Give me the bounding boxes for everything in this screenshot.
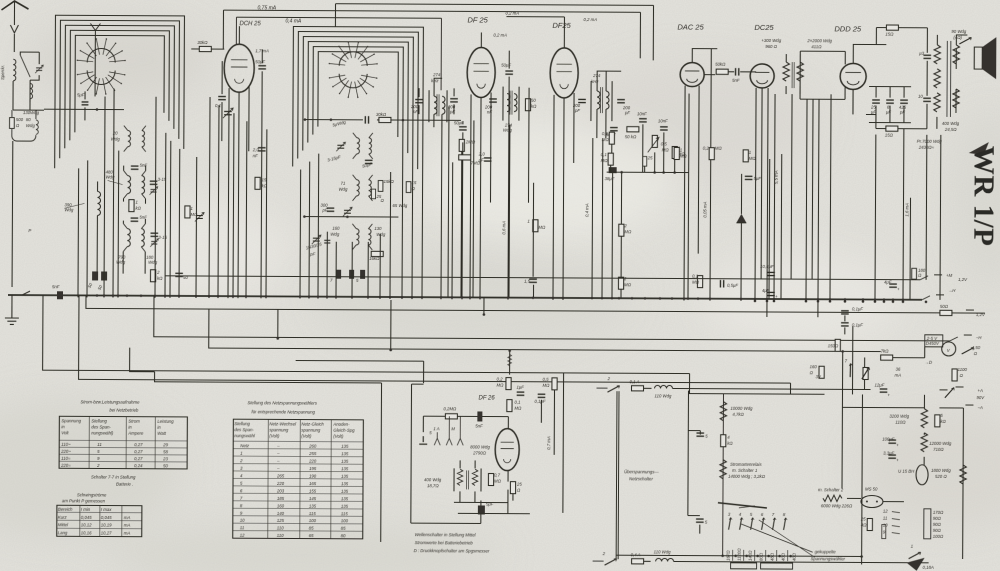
svg-text:25: 25 (516, 482, 522, 487)
wire y109 (44, 108, 124, 110)
svg-text:130Wdg: 130Wdg (23, 110, 40, 115)
svg-text:135: 135 (341, 496, 349, 501)
svg-text:4μF: 4μF (884, 280, 892, 285)
svg-text:167Ω: 167Ω (726, 550, 731, 561)
cap 200 right (450, 99, 458, 102)
IF transformer T2 274kHz (591, 81, 612, 121)
frame antenna input (90, 23, 100, 40)
15 Ohm resistor top (886, 25, 898, 30)
svg-text:15Ω: 15Ω (885, 32, 894, 37)
svg-text:Ampere: Ampere (127, 431, 144, 436)
trimmer (343, 207, 352, 216)
svg-text:40Ω: 40Ω (781, 552, 786, 561)
svg-text:U 15 BH: U 15 BH (898, 469, 915, 474)
svg-text:65: 65 (309, 533, 314, 538)
svg-text:10,27: 10,27 (101, 530, 112, 535)
svg-text:Spannung: Spannung (61, 418, 81, 423)
bottom switch right (909, 552, 921, 559)
svg-text:3200 Wdg: 3200 Wdg (889, 414, 909, 419)
svg-text:50 kΩ: 50 kΩ (625, 134, 637, 139)
svg-text:110=: 110= (61, 456, 71, 461)
svg-text:m. Schalter 1: m. Schalter 1 (732, 468, 758, 473)
svg-text:nF: nF (487, 110, 492, 115)
svg-text:Wdg: Wdg (111, 137, 120, 142)
left IF coil pair 1 (128, 176, 131, 194)
black arrow top right (969, 142, 989, 155)
switch row 2 (593, 560, 604, 562)
svg-text:220=: 220= (60, 463, 71, 468)
svg-text:1120Ω: 1120Ω (737, 548, 742, 561)
svg-text:1,5: 1,5 (524, 279, 531, 284)
svg-text:0,27: 0,27 (134, 442, 143, 447)
osc box line (304, 216, 398, 218)
svg-text:nungswähl: nungswähl (234, 433, 256, 438)
svg-text:80: 80 (341, 533, 346, 538)
svg-text:3-15: 3-15 (158, 235, 167, 240)
svg-text:DCH 25: DCH 25 (239, 21, 261, 27)
svg-text:MΩ: MΩ (538, 225, 546, 230)
svg-text:220: 220 (276, 481, 285, 486)
antenna (1, 1, 28, 10)
resistor 0,1M (608, 153, 613, 165)
svg-text:0,18A: 0,18A (923, 565, 934, 570)
svg-text:2×2000 Wdg: 2×2000 Wdg (806, 38, 832, 43)
rotary switch S2 (329, 64, 345, 65)
svg-text:+300 Wdg: +300 Wdg (761, 38, 781, 43)
DDD25 drive frame (800, 51, 845, 99)
svg-text:80: 80 (26, 117, 31, 122)
cap 5nF (736, 68, 739, 76)
svg-text:115: 115 (309, 511, 316, 516)
svg-text:0,1: 0,1 (215, 103, 222, 108)
svg-text:145: 145 (309, 496, 317, 501)
svg-text:130: 130 (374, 226, 382, 231)
svg-text:12: 12 (240, 533, 245, 538)
svg-text:185: 185 (277, 496, 285, 501)
svg-text:71: 71 (341, 181, 346, 186)
svg-text:1 A: 1 A (433, 426, 439, 431)
svg-text:Bereich: Bereich (58, 507, 73, 512)
resistor 0,5M vertical (552, 378, 557, 390)
svg-text:6000 Wdg 226Ω: 6000 Wdg 226Ω (821, 503, 853, 508)
svg-text:0,4 mA: 0,4 mA (285, 18, 302, 24)
cap 300pF (327, 208, 335, 211)
svg-text:0,27: 0,27 (134, 456, 143, 461)
cap 1s (365, 116, 368, 124)
svg-text:135: 135 (341, 459, 349, 464)
rotary switch S1 (77, 60, 93, 61)
svg-text:→H: →H (948, 288, 956, 293)
svg-text:gekuppelte: gekuppelte (815, 549, 837, 554)
trimmer 3-15 (150, 181, 158, 184)
right resistor chain (924, 509, 931, 539)
svg-text:36: 36 (896, 367, 901, 372)
svg-text:DF 25: DF 25 (467, 15, 488, 24)
resistor 2MOhm (533, 220, 538, 232)
svg-text:50μF: 50μF (501, 63, 511, 68)
svg-text:10,16: 10,16 (81, 530, 92, 535)
svg-text:10: 10 (883, 523, 888, 528)
svg-text:Strom-bzw.Leistungsaufnahme: Strom-bzw.Leistungsaufnahme (80, 399, 140, 404)
cap 0,1uF (538, 394, 546, 397)
svg-text:100μF: 100μF (882, 437, 895, 442)
svg-text:(Volt): (Volt) (301, 434, 312, 439)
tube DCH25 (224, 44, 254, 92)
relay column (722, 394, 725, 556)
svg-text:50: 50 (163, 463, 168, 468)
svg-text:25: 25 (860, 516, 866, 521)
svg-text:pF: pF (321, 208, 327, 213)
svg-text:5μF: 5μF (754, 176, 762, 181)
svg-text:7kΩ: 7kΩ (881, 349, 890, 354)
resistor 50kOhm (627, 127, 639, 132)
battery contacts 1A M (419, 436, 427, 444)
trimmer (195, 212, 204, 221)
svg-text:18,7Ω: 18,7Ω (427, 483, 439, 488)
4,50 Ohm trim (962, 347, 974, 354)
resistor 2M lower (618, 277, 623, 289)
svg-text:kΩ: kΩ (531, 104, 537, 109)
resistor 15k (378, 181, 383, 192)
svg-text:Sperrkr.: Sperrkr. (0, 65, 5, 80)
verticals below DC25/DDD25 (755, 88, 756, 301)
coil 80Wdg (36, 120, 38, 134)
mech link (616, 391, 619, 559)
svg-text:WR 1/P: WR 1/P (967, 146, 1000, 247)
resistor 15k (255, 177, 260, 189)
svg-text:Wdg: Wdg (339, 187, 348, 192)
svg-text:Schwingströme: Schwingströme (77, 492, 107, 497)
long bus y275 (165, 276, 920, 280)
right end labels (922, 295, 944, 300)
svg-text:50Ω: 50Ω (940, 304, 949, 309)
svg-text:Batterie .: Batterie . (116, 482, 133, 487)
svg-text:0,24: 0,24 (134, 463, 143, 468)
cap 50 (175, 273, 183, 276)
svg-text:135: 135 (341, 481, 349, 486)
svg-text:1,2V: 1,2V (976, 312, 986, 317)
svg-text:Wdg: Wdg (376, 232, 385, 237)
svg-text:kΩ: kΩ (727, 441, 733, 446)
svg-text:140: 140 (277, 511, 285, 516)
svg-text:am Punkt P gemessen: am Punkt P gemessen (62, 498, 106, 503)
svg-text:M: M (451, 426, 455, 431)
svg-text:160: 160 (332, 226, 340, 231)
svg-text:110: 110 (277, 533, 284, 538)
resistor 2k (150, 270, 155, 282)
svg-text:+A: +A (977, 388, 983, 393)
svg-text:10: 10 (240, 518, 245, 523)
svg-text:110 Wdg: 110 Wdg (654, 393, 672, 398)
svg-text:135: 135 (341, 451, 349, 456)
svg-text:0,2 mA: 0,2 mA (505, 11, 519, 16)
resistor 2M upper (619, 224, 624, 236)
svg-text:100: 100 (341, 518, 349, 523)
resistor 1M mid (674, 147, 679, 159)
cap 10uF (923, 55, 931, 58)
caps 10,5uF 4uF stack (767, 272, 775, 275)
cap 38nF (609, 167, 617, 173)
svg-text:I min: I min (81, 507, 91, 512)
switch (959, 37, 971, 44)
AF transformer (783, 62, 789, 81)
svg-text:kΩ: kΩ (135, 206, 141, 211)
cap 200nF (489, 99, 497, 102)
svg-text:170Ω: 170Ω (933, 510, 944, 515)
diode (736, 214, 746, 223)
antenna switch (20, 55, 30, 77)
svg-text:0,1 A: 0,1 A (630, 379, 640, 384)
svg-text:Wdg: Wdg (26, 123, 35, 128)
svg-text:411Ω: 411Ω (811, 44, 822, 49)
svg-text:135: 135 (309, 503, 317, 508)
svg-text:100: 100 (309, 518, 317, 523)
svg-text:0,1μF: 0,1μF (852, 322, 863, 327)
resistor 1kOhm (129, 200, 134, 212)
svg-text:38μF: 38μF (605, 176, 615, 181)
bandswitch wiring loops center (293, 26, 424, 177)
svg-text:23: 23 (162, 456, 168, 461)
svg-text:(Volt): (Volt) (333, 434, 344, 439)
table 1 (59, 416, 187, 469)
antenna coil 2 (30, 83, 33, 98)
svg-text:2,0: 2,0 (252, 147, 260, 152)
svg-text:0,27: 0,27 (134, 449, 143, 454)
svg-text:2,0: 2,0 (478, 151, 486, 156)
svg-text:135: 135 (341, 444, 349, 449)
svg-text:DAC 25: DAC 25 (677, 23, 704, 32)
svg-text:nF: nF (253, 153, 258, 158)
svg-text:Lang: Lang (58, 530, 68, 535)
svg-text:(Volt): (Volt) (269, 433, 280, 438)
svg-text:mA: mA (124, 523, 131, 528)
4uF cap right (889, 284, 897, 287)
svg-text:Stromwerte bei Batteriebetrieb: Stromwerte bei Batteriebetrieb (415, 540, 474, 545)
svg-text:0,045: 0,045 (101, 515, 112, 520)
3,3uF cap (888, 455, 896, 458)
svg-text:11: 11 (97, 442, 102, 447)
svg-text:4,7kΩ: 4,7kΩ (732, 412, 744, 417)
svg-text:μF: μF (870, 110, 876, 115)
svg-text:Stromartenrelais: Stromartenrelais (730, 462, 762, 467)
svg-text:260: 260 (308, 444, 317, 449)
svg-text:58: 58 (163, 449, 168, 454)
svg-text:265: 265 (276, 473, 285, 478)
svg-text:0,7 mA: 0,7 mA (546, 436, 551, 450)
svg-text:DF25: DF25 (552, 21, 571, 30)
+A 90V -A labels (940, 387, 964, 390)
output transformer (934, 45, 940, 64)
resistor 0,5M (609, 132, 614, 144)
12uF cap (880, 389, 888, 392)
cap 10nF no.2 (660, 127, 668, 130)
resistor 50k (525, 99, 530, 111)
svg-text:1800 Wdg: 1800 Wdg (931, 468, 951, 473)
svg-text:0,1μF: 0,1μF (852, 306, 863, 311)
svg-text:MΩ: MΩ (749, 156, 757, 161)
tube DDD25 (840, 63, 866, 89)
svg-text:5nF: 5nF (140, 163, 148, 168)
svg-text:Netz-Gleich: Netz-Gleich (301, 422, 324, 427)
svg-text:10nF: 10nF (658, 118, 668, 123)
svg-text:1,6 mA: 1,6 mA (904, 203, 909, 217)
svg-text:10: 10 (918, 94, 923, 99)
svg-text:MΩ: MΩ (624, 229, 632, 234)
svg-text:85: 85 (341, 526, 346, 531)
svg-text:710Ω: 710Ω (933, 447, 944, 452)
svg-text:kΩ: kΩ (940, 419, 946, 424)
svg-text:20: 20 (112, 131, 118, 136)
svg-text:1100: 1100 (958, 367, 968, 372)
svg-text:pF: pF (624, 110, 630, 115)
svg-text:135: 135 (341, 474, 349, 479)
svg-text:bei Netzbetrieb: bei Netzbetrieb (109, 408, 139, 413)
svg-text:0,5: 0,5 (602, 131, 609, 136)
cap column x689 (687, 391, 690, 516)
svg-text:pF: pF (309, 252, 315, 257)
cap 50pF (610, 128, 618, 131)
svg-text:5nF: 5nF (52, 284, 60, 289)
svg-text:40Ω: 40Ω (792, 552, 797, 561)
svg-text:135: 135 (341, 504, 349, 509)
svg-text:11: 11 (240, 525, 245, 530)
svg-text:10nF: 10nF (637, 111, 647, 116)
junction line (607, 171, 689, 173)
ground (5, 306, 19, 324)
svg-text:Watt: Watt (157, 431, 167, 436)
svg-text:5nF: 5nF (139, 215, 147, 220)
svg-text:mA: mA (895, 373, 902, 378)
resistor 0,1M vertical (507, 400, 512, 412)
cap 5nF top (131, 166, 139, 169)
svg-text:Wellenschalter in Stellung Mit: Wellenschalter in Stellung Mittel (415, 532, 477, 537)
wires verticals (77, 168, 80, 297)
svg-text:(4Ω): (4Ω) (953, 35, 962, 40)
svg-text:90V: 90V (976, 395, 985, 400)
resistor bank (731, 563, 793, 569)
svg-text:12000 Wdg: 12000 Wdg (929, 441, 952, 446)
antenna coil 2,8 (13, 59, 16, 81)
svg-text:220~: 220~ (60, 449, 71, 454)
svg-text:Stellung des Netzspannungswähl: Stellung des Netzspannungswählers (247, 400, 317, 405)
180 Ohm resistor (912, 268, 917, 279)
svg-text:10000 Wdg: 10000 Wdg (730, 406, 753, 411)
svg-text:15kΩ: 15kΩ (384, 179, 395, 184)
trimmer 1N30/25 (312, 235, 321, 244)
svg-text:+M: +M (946, 273, 953, 278)
svg-text:5μF: 5μF (77, 92, 85, 97)
svg-text:MS 50: MS 50 (865, 486, 878, 491)
svg-text:0,5μF: 0,5μF (727, 283, 738, 288)
electrolytic caps bank (872, 100, 880, 103)
svg-text:Wdg: Wdg (116, 260, 125, 265)
svg-text:des Span-: des Span- (91, 424, 111, 429)
osc coil pair B (357, 180, 360, 196)
resistor 25 Ohm (510, 482, 515, 494)
svg-text:MΩ: MΩ (680, 154, 688, 159)
svg-text:3,3μF: 3,3μF (883, 451, 894, 456)
trimmer 3-15pF (336, 142, 345, 151)
bus dots right (754, 300, 757, 303)
svg-text:Stellung: Stellung (234, 421, 250, 426)
svg-text:10,19: 10,19 (101, 523, 112, 528)
osc junction line (305, 119, 461, 122)
left IF coil pair 2 (127, 229, 130, 247)
resistor 50kOhm (716, 69, 728, 74)
svg-text:MΩ: MΩ (715, 146, 723, 151)
svg-text:160: 160 (810, 364, 818, 369)
voltmeter (925, 335, 943, 347)
svg-text:Netz-Wechsel: Netz-Wechsel (269, 421, 297, 426)
resistor 30kOhm (379, 117, 391, 122)
svg-text:Überspannungs—: Überspannungs— (624, 469, 659, 474)
svg-text:90Ω: 90Ω (933, 516, 942, 521)
svg-text:90 Wdg: 90 Wdg (951, 29, 966, 34)
cap 50uF (365, 160, 373, 163)
tube DF26 (495, 429, 519, 471)
svg-text:10,5μF: 10,5μF (760, 264, 774, 269)
svg-text:0,6 mA: 0,6 mA (501, 221, 506, 235)
svg-text:190: 190 (309, 474, 317, 479)
svg-text:203: 203 (276, 488, 285, 493)
50 Ohm resistor (940, 310, 952, 315)
resistor 150 Ohm (835, 339, 840, 351)
svg-text:Kurz: Kurz (58, 515, 68, 520)
wire antenna down (11, 141, 14, 287)
svg-text:0,045: 0,045 (81, 515, 92, 520)
main bus (8, 295, 922, 300)
svg-text:für entsprechende Netzspannung: für entsprechende Netzspannung (251, 409, 315, 414)
svg-text:50: 50 (531, 98, 536, 103)
svg-text:0,05 mA: 0,05 mA (702, 201, 707, 217)
svg-text:160: 160 (277, 503, 285, 508)
svg-text:0,1: 0,1 (514, 400, 521, 405)
bottom bus (617, 555, 862, 556)
relay armature (718, 503, 767, 508)
svg-text:D : Druckknopfschalter am Spgs: D : Druckknopfschalter am Spgsmesser (414, 548, 490, 553)
svg-text:−H: −H (976, 335, 983, 340)
svg-text:10,12: 10,12 (81, 522, 92, 527)
right vertical rails (862, 394, 964, 565)
svg-text:Wdg: Wdg (330, 232, 339, 237)
pot (863, 367, 868, 379)
svg-text:P: P (28, 228, 31, 233)
50 uF cap (258, 66, 266, 69)
svg-text:110~: 110~ (61, 442, 71, 447)
cap 1uF (517, 392, 525, 395)
7kOhm (881, 355, 893, 360)
IF transformer T1 274kHz (429, 90, 447, 122)
svg-text:Pr.7000 Wdg: Pr.7000 Wdg (917, 139, 943, 144)
svg-text:spannung: spannung (269, 427, 289, 432)
svg-text:Gleich-Spg: Gleich-Spg (333, 428, 355, 433)
svg-text:80Ω: 80Ω (759, 552, 764, 561)
svg-text:des Span-: des Span- (234, 427, 254, 432)
svg-text:125: 125 (277, 518, 285, 523)
tube DF25 no.2 (550, 48, 578, 98)
black arrow bottom (907, 558, 925, 571)
svg-text:Spannungswähler: Spannungswähler (811, 556, 846, 561)
svg-text:24,5Ω: 24,5Ω (944, 127, 957, 132)
svg-text:115: 115 (341, 511, 348, 516)
cap 10nF no.1 (639, 119, 647, 122)
svg-text:25: 25 (647, 155, 653, 160)
svg-text:4,50: 4,50 (972, 345, 981, 350)
svg-text:0,2MΩ: 0,2MΩ (443, 406, 457, 411)
svg-text:spannung: spannung (301, 428, 321, 433)
switch 7 (845, 363, 857, 377)
cap 2,0 (484, 158, 492, 161)
